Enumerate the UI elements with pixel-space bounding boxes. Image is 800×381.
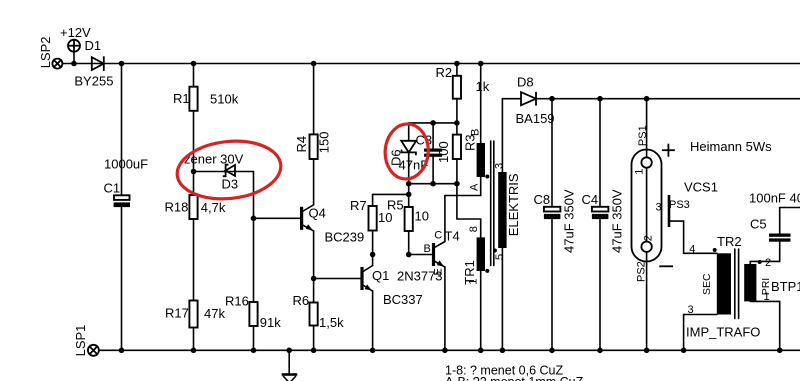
red highlight ellipse around D3 — [174, 136, 283, 204]
svg-text:C4: C4 — [582, 192, 599, 207]
svg-text:D1: D1 — [85, 38, 102, 53]
node junction at +12V symbol — [71, 61, 77, 67]
node junction TR2 pin3 rail — [681, 348, 687, 354]
wire D8 cathode rail — [536, 98, 800, 100]
LSP2 terminal — [52, 59, 62, 69]
svg-text:10: 10 — [415, 209, 429, 224]
winding polarity dot 8-1 — [485, 269, 489, 273]
resistor R2 — [453, 64, 461, 123]
resistor R16 — [249, 302, 257, 326]
zener diode D6 — [401, 123, 416, 184]
svg-text:4: 4 — [689, 244, 695, 256]
svg-text:PS2: PS2 — [635, 261, 647, 282]
resistor R4 — [310, 134, 318, 159]
LSP1 terminal — [88, 345, 99, 356]
+12V supply symbol — [68, 40, 80, 64]
node junction R4 top — [311, 61, 317, 67]
transformer TR1 winding 8-1 — [477, 237, 485, 271]
node junction D6 bottom — [406, 181, 412, 187]
svg-text:A: A — [469, 183, 481, 191]
tube pin circle 2 — [641, 242, 651, 252]
svg-text:1000uF: 1000uF — [104, 157, 148, 172]
wire T4 collector to TR1 pin A — [445, 177, 481, 196]
wire link up to D6 node — [408, 184, 410, 195]
tube PS1 outline — [632, 150, 662, 262]
node junction R1 top — [191, 61, 197, 67]
svg-text:VCS1: VCS1 — [684, 180, 718, 195]
diode D1 — [92, 56, 104, 71]
wire grid to TR2 pin 4 — [669, 221, 717, 253]
svg-text:510k: 510k — [210, 92, 239, 107]
node junction pin B top — [478, 61, 484, 67]
ground symbol — [282, 350, 298, 381]
svg-text:T4: T4 — [445, 229, 460, 244]
node junction T4 emitter rail — [442, 348, 448, 354]
svg-text:91k: 91k — [260, 315, 281, 330]
wire C4 branch — [599, 99, 601, 351]
wire D6 C3 R3 bottom node — [409, 183, 457, 185]
capacitor C8 — [544, 207, 561, 219]
svg-text:B: B — [424, 243, 431, 255]
wire C5 branch — [750, 208, 800, 265]
svg-text:BC337: BC337 — [383, 292, 423, 307]
wire R7 R5 top link — [373, 193, 409, 195]
winding polarity dot SEC — [713, 248, 717, 252]
svg-text:47uF 350V: 47uF 350V — [562, 189, 577, 253]
svg-text:1,5k: 1,5k — [319, 315, 344, 330]
node junction zener left — [191, 169, 197, 175]
svg-text:3: 3 — [656, 202, 662, 214]
svg-text:LSP1: LSP1 — [73, 325, 88, 357]
node junction C8 bottom rail — [549, 348, 555, 354]
node junction tube bottom rail — [644, 348, 650, 354]
resistor R1 — [189, 87, 197, 111]
svg-text:1k: 1k — [476, 79, 490, 94]
node junction pin 1 rail — [478, 348, 484, 354]
resistor R5 — [405, 207, 413, 231]
svg-text:D3: D3 — [222, 177, 239, 192]
svg-text:R17: R17 — [165, 306, 189, 321]
svg-text:R1: R1 — [173, 91, 190, 106]
tube pin circle 1 — [641, 157, 651, 167]
svg-text:LSP2: LSP2 — [38, 36, 53, 68]
svg-text:TR2: TR2 — [717, 234, 742, 249]
node junction R2 bottom R3 top — [454, 120, 460, 126]
node junction tube top — [644, 96, 650, 102]
wire TR2 pin 1 to rail — [750, 301, 779, 350]
svg-text:1: 1 — [634, 169, 646, 175]
svg-text:R4: R4 — [294, 136, 309, 153]
transformer TR2 winding SEC — [717, 253, 731, 314]
wire R3 node to TR1 pin 8 — [457, 184, 481, 238]
svg-text:BTP1: BTP1 — [771, 279, 800, 294]
capacitor C4 — [592, 207, 609, 219]
node junction C4 top — [597, 96, 603, 102]
svg-text:47k: 47k — [204, 306, 225, 321]
svg-text:2: 2 — [765, 257, 771, 269]
node junction ground rail — [286, 348, 292, 354]
svg-text:5: 5 — [494, 254, 506, 260]
wire C1 branch — [121, 64, 123, 351]
svg-text:D8: D8 — [517, 75, 534, 90]
svg-text:3: 3 — [493, 163, 505, 169]
wire TR2 pin 3 to rail — [684, 315, 717, 351]
svg-text:2: 2 — [643, 235, 655, 241]
node junction R6 bottom rail — [311, 348, 317, 354]
wire zener branch — [194, 171, 254, 173]
resistor R18 — [189, 195, 197, 219]
wire R5 column — [408, 194, 410, 254]
winding polarity dot B-A — [485, 175, 489, 179]
transformer TR1 winding B-A — [477, 143, 485, 177]
svg-text:8: 8 — [468, 226, 480, 232]
svg-text:Q1: Q1 — [372, 268, 389, 283]
node junction Q1 base tap — [311, 276, 317, 282]
minus sign — [659, 265, 673, 267]
wire TR1 pin 5 to rail — [501, 248, 503, 350]
node junction R2 top — [454, 61, 460, 67]
node junction C3 top — [430, 120, 436, 126]
node junction C3 bottom — [430, 181, 436, 187]
node junction C1 bottom rail — [119, 348, 125, 354]
wire R4 column — [313, 64, 315, 205]
svg-text:B: B — [469, 129, 481, 136]
svg-text:C8: C8 — [534, 192, 551, 207]
wire tube anode — [646, 99, 648, 158]
plus sign — [662, 144, 675, 157]
svg-text:R18: R18 — [165, 200, 189, 215]
node junction pin1 rail — [777, 348, 783, 354]
winding polarity dot PRI — [758, 260, 762, 264]
svg-text:100nF 400V: 100nF 400V — [749, 191, 800, 206]
wire R7 column — [372, 194, 374, 254]
wire Q4 emitter to R6 — [313, 231, 315, 350]
diode D8 — [521, 92, 536, 106]
svg-text:Q4: Q4 — [309, 206, 326, 221]
wire D8 anode segment — [502, 99, 521, 177]
svg-text:R7: R7 — [350, 198, 367, 213]
node junction R3 bottom — [454, 181, 460, 187]
wire +12V top rail — [62, 63, 800, 65]
svg-text:R6: R6 — [293, 293, 310, 308]
tube grid bar — [668, 195, 671, 227]
winding polarity dot 3-5 — [493, 249, 497, 253]
transformer TR1 winding 3-5 — [498, 172, 506, 248]
wire Q1 base — [314, 278, 361, 280]
svg-text:C1: C1 — [104, 181, 121, 196]
node junction pin 5 rail — [500, 348, 506, 354]
node junction R5 bottom — [406, 252, 412, 258]
resistor R7 — [369, 206, 377, 231]
node junction D1 cathode — [119, 61, 125, 67]
transistor T4 — [432, 196, 445, 351]
node junction Q4 base tap — [251, 216, 257, 222]
svg-text:C: C — [434, 230, 442, 242]
svg-text:150: 150 — [316, 131, 331, 153]
svg-text:PS3: PS3 — [669, 199, 690, 211]
transformer TR1 core — [491, 141, 494, 266]
svg-text:IMP_TRAFO: IMP_TRAFO — [686, 325, 760, 340]
svg-text:C5: C5 — [750, 217, 767, 232]
wire TR1 pin 1 to rail — [480, 271, 482, 350]
svg-text:PS1: PS1 — [637, 125, 649, 146]
svg-text:R2: R2 — [436, 65, 453, 80]
node junction R17 bottom rail — [191, 348, 197, 354]
svg-text:BY255: BY255 — [74, 74, 113, 89]
capacitor C1 — [114, 195, 130, 207]
svg-text:BC239: BC239 — [325, 230, 365, 245]
transistor Q4 — [300, 205, 314, 231]
svg-text:A-B: ?2 menet 1mm CuZ: A-B: ?2 menet 1mm CuZ — [445, 375, 584, 381]
wire T4 base — [409, 254, 432, 256]
node junction R16 bottom rail — [251, 348, 257, 354]
node junction Q1 emitter rail — [370, 348, 376, 354]
node junction R5 top — [406, 192, 412, 198]
zener diode D3 — [223, 165, 235, 177]
transformer TR2 winding PRI — [744, 264, 756, 301]
transistor Q1 — [360, 255, 372, 351]
resistor R6 — [310, 303, 318, 326]
svg-text:E: E — [433, 268, 445, 275]
svg-text:Heimann 5Ws: Heimann 5Ws — [690, 139, 772, 154]
wire R1 column — [193, 64, 195, 351]
svg-text:100: 100 — [436, 141, 451, 163]
wire D6 C3 R3 top node — [409, 122, 457, 124]
wire Q4 base — [254, 217, 301, 219]
capacitor C3 — [424, 123, 442, 184]
transformer TR2 core — [735, 249, 739, 319]
tube internal wire — [646, 168, 648, 242]
wire TR1 pin B — [480, 64, 482, 144]
wire ground bottom rail — [99, 349, 800, 351]
svg-text:47uF 350V: 47uF 350V — [610, 189, 625, 253]
node junction C4 bottom rail — [597, 348, 603, 354]
red highlight ellipse around D6 — [383, 123, 430, 181]
wire R16 column — [253, 172, 255, 351]
resistor R17 — [189, 301, 197, 328]
capacitor C5 — [769, 234, 791, 242]
wire C8 branch — [551, 99, 553, 351]
svg-text:R5: R5 — [387, 198, 404, 213]
node junction R7 bottom / Q1 collector — [370, 252, 376, 258]
svg-text:R16: R16 — [225, 294, 249, 309]
node junction C8 top — [549, 96, 555, 102]
svg-text:3: 3 — [688, 304, 694, 316]
svg-text:SEC: SEC — [701, 273, 713, 295]
svg-text:TR1: TR1 — [462, 260, 477, 285]
svg-text:ELEKTRIS: ELEKTRIS — [506, 173, 521, 236]
wire tube cathode — [646, 252, 648, 350]
svg-text:BA159: BA159 — [516, 111, 555, 126]
resistor R3 — [453, 123, 461, 184]
svg-text:4,7k: 4,7k — [201, 200, 226, 215]
